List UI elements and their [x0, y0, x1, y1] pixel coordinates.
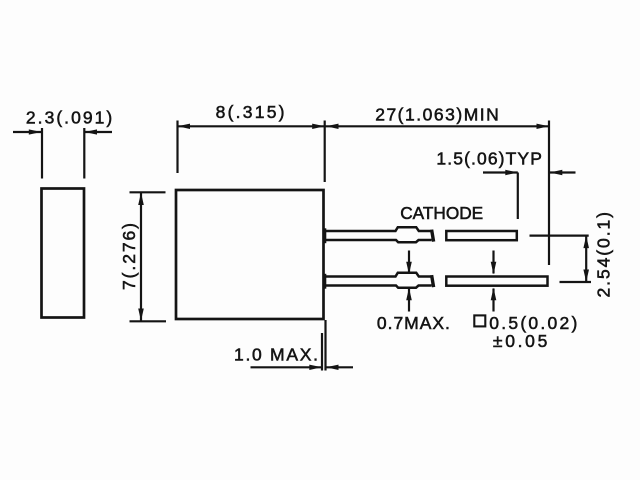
svg-text:1.0 MAX.: 1.0 MAX. [234, 345, 318, 365]
svg-text:27(1.063)MIN: 27(1.063)MIN [375, 104, 499, 124]
svg-text:2.54(0.1): 2.54(0.1) [594, 212, 614, 298]
svg-text:2.3(.091): 2.3(.091) [26, 107, 112, 127]
svg-text:±0.05: ±0.05 [493, 331, 547, 351]
svg-text:0.7MAX.: 0.7MAX. [377, 313, 450, 333]
svg-text:CATHODE: CATHODE [400, 203, 483, 223]
